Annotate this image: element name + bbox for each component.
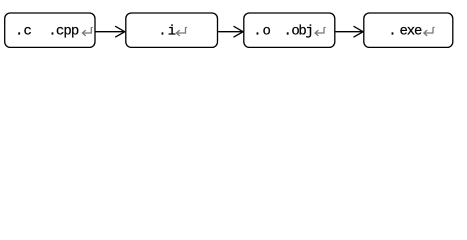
svg-text:.: . [158, 24, 166, 40]
svg-text:c: c [24, 24, 32, 40]
box .c .cpp [5, 13, 95, 47]
arrow 2 [218, 26, 243, 37]
arrow 1 [95, 26, 124, 37]
svg-text:.: . [15, 24, 23, 40]
box .i [126, 13, 218, 47]
return mark box1 [82, 27, 93, 36]
svg-text:i: i [168, 24, 176, 40]
arrow 3 [335, 26, 363, 37]
return mark box4 [424, 27, 435, 36]
box .exe [364, 13, 453, 47]
svg-text:exe: exe [400, 24, 423, 40]
box .o .obj [244, 13, 335, 47]
svg-text:obj: obj [291, 24, 312, 40]
return mark box2 [176, 27, 187, 36]
svg-text:.: . [388, 24, 396, 40]
svg-text:o: o [262, 24, 270, 40]
svg-text:cpp: cpp [56, 24, 79, 40]
svg-text:.: . [253, 24, 261, 40]
return mark box3 [315, 27, 326, 36]
